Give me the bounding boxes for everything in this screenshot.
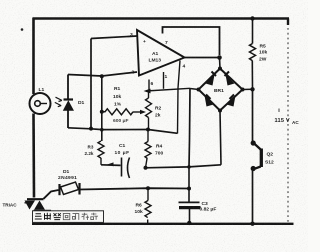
resistor R1: [100, 86, 146, 124]
wire pin4 node vertical to C3: [189, 88, 190, 167]
wire op-amp pin 2 input: [68, 72, 137, 76]
wire feedback node (y 129): [68, 128, 178, 134]
trigger diode D1 2N4991: [58, 169, 80, 195]
resistor R5: [250, 16, 268, 89]
wire pin 7 loop: [163, 27, 220, 55]
wire pin3 vertical to lower node: [89, 39, 93, 131]
wire gate node to C3 line: [80, 186, 192, 190]
wire right rail (dashed 115VAC side): [287, 28, 289, 222]
capacitor C3: [179, 167, 217, 225]
triac: [3, 190, 59, 224]
wire op-amp pin 3 input: [91, 36, 137, 39]
photodiode D1 (light sensor): [55, 75, 85, 129]
resistor R6: [135, 188, 152, 224]
transistor Q2: [250, 89, 274, 226]
wire left rail lower: [32, 114, 35, 198]
wire left rail upper: [32, 18, 35, 95]
resistor R3: [85, 141, 105, 165]
wire bridge right stub: [243, 87, 255, 91]
potentiometer R2: [146, 91, 162, 132]
op-amp A1 LM13: [130, 30, 186, 87]
text 115 VAC: [275, 109, 300, 125]
wire bridge bottom drop: [220, 111, 221, 165]
wire top supply rail: [33, 19, 289, 26]
wire bottom rail: [32, 223, 294, 225]
chinese annotation box (san duan shuang xiang ke kong gui): [33, 211, 104, 223]
lamp L1: [30, 87, 51, 114]
wire R1/R3 branch vertical: [100, 74, 104, 141]
capacitor C1: [115, 143, 130, 178]
wire bridge left stub: [190, 89, 199, 90]
wire op-amp output: [184, 55, 222, 68]
bridge rectifier BR1: [197, 67, 245, 113]
wire lower horizontal node: [101, 162, 221, 169]
wire pin6/pin1/pin4 node: [144, 61, 191, 134]
resistor R4: [145, 130, 163, 168]
